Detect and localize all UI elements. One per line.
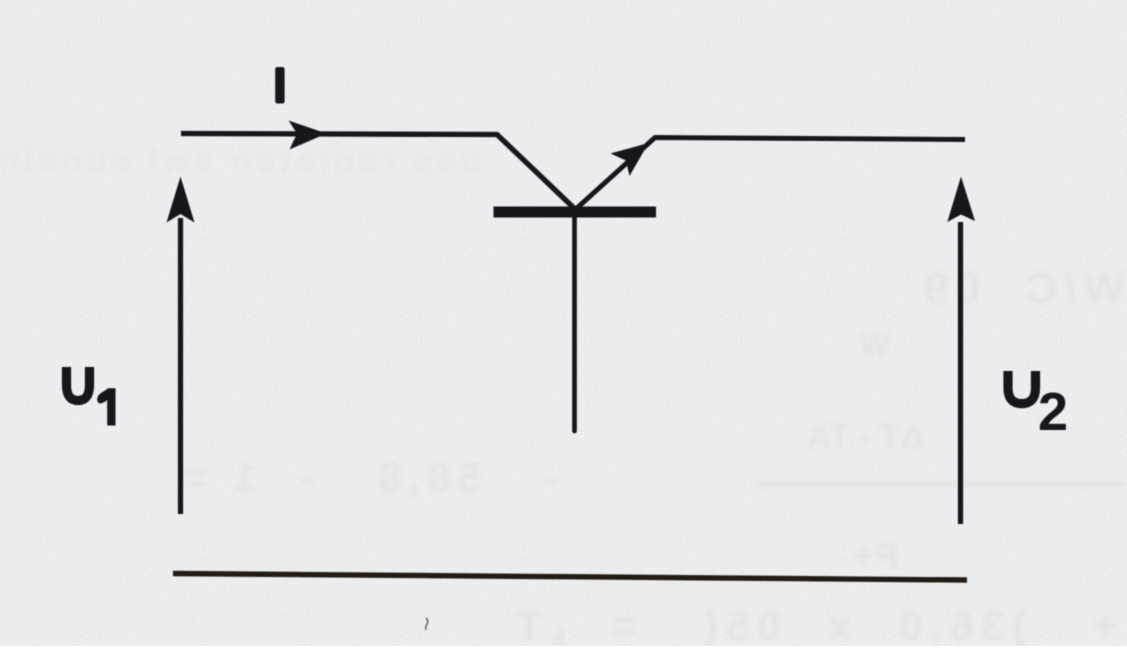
- transistor Q1 emitter arrowhead (pointing up-right): [611, 143, 649, 176]
- wire: top left horizontal segment + collector diagonal into base bar: [181, 134, 576, 211]
- label U2: letter U: [1008, 371, 1036, 404]
- schematic ink: [167, 121, 976, 631]
- svg-text:ΔT - TA: ΔT - TA: [807, 418, 925, 456]
- svg-text:W/C° 05: W/C° 05: [151, 605, 300, 646]
- svg-text:W: W: [859, 327, 890, 363]
- svg-text:+ )36,0 x 05( = kT: + )36,0 x 05( = kT: [508, 602, 1118, 646]
- svg-text:- 58,8 - 1 =: - 58,8 - 1 =: [176, 454, 558, 501]
- label I (current): [275, 67, 284, 104]
- bleed fraction bar: [755, 482, 1127, 486]
- transistor Q1 base lead (vertical): [572, 217, 577, 431]
- svg-text:2: 2: [1038, 382, 1068, 442]
- faint bleed-through (mirrored text from reverse side): [0, 142, 1127, 651]
- wire: bottom rail: [173, 574, 967, 581]
- arrowhead U1 (pointing up): [167, 177, 195, 223]
- dust speck: [426, 618, 428, 630]
- label U1: letter U: [67, 367, 90, 401]
- arrowhead U2 (pointing up): [947, 177, 975, 223]
- svg-text:P+: P+: [853, 535, 898, 576]
- arrow shaft U1 (left): [178, 218, 183, 514]
- arrow shaft U2 (right): [958, 222, 963, 524]
- transistor Q1 base bar: [494, 207, 657, 218]
- transistor Q1 emitter line + top right horizontal wire segment: [577, 138, 965, 209]
- svg-text:W/C 09: W/C 09: [917, 264, 1125, 313]
- label U1: subscript 1: [97, 388, 115, 425]
- current arrowhead I (on top wire, pointing right): [289, 121, 327, 150]
- svg-text:ues radieten swl eunelneb: ues radieten swl eunelneb: [0, 142, 481, 180]
